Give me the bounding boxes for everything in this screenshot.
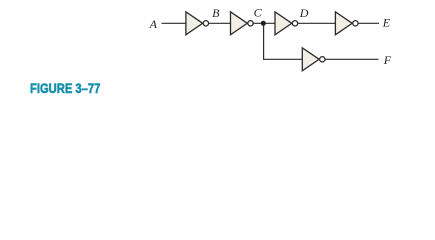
svg-text:A: A (149, 17, 158, 31)
figure caption (30, 80, 100, 96)
wire inverter 2 to inverter 3 (253, 22, 275, 24)
svg-text:D: D (299, 6, 309, 20)
wire inverter 5 to F (325, 58, 378, 60)
wire inverter 1 to inverter 2 (209, 22, 231, 24)
inverter 1 (186, 12, 209, 35)
svg-text:C: C (254, 6, 263, 20)
inverter 3 (275, 12, 298, 35)
inverter 5 (302, 48, 325, 71)
svg-text:F: F (383, 53, 392, 67)
inverter 2 (231, 12, 254, 35)
junction node C dot (261, 21, 266, 26)
wire inverter 3 to inverter 4 (298, 22, 336, 24)
svg-text:E: E (382, 16, 391, 30)
wire A to inverter 1 (162, 22, 187, 24)
wire vertical branch from node C (264, 23, 303, 59)
inverter 4 (335, 12, 358, 35)
wire inverter 4 to E (358, 22, 379, 24)
svg-text:B: B (212, 6, 220, 20)
